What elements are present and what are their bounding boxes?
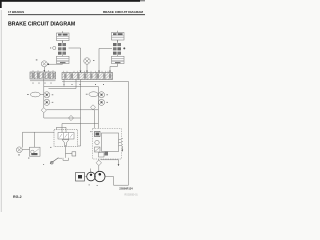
top scan border [0,0,140,2]
wire: band right end to right riser [113,81,129,83]
left accumulator oval [30,92,40,97]
wire: supply line to foot valve and pump unit [62,123,98,125]
wire: tick above pump circle1 [90,169,92,173]
tank symbol under foot valve [63,158,69,161]
right gauge A [98,92,104,98]
label dash above left gauge [36,59,38,60]
valve circle in block [95,140,99,144]
label dash right of charge gauge [93,59,94,62]
wire: right block drain [101,160,119,166]
motor box [76,173,87,182]
left brake band (slack adjuster row) [30,72,56,81]
label dot left of foot valve [50,146,51,149]
main brake band (brake line manifold) [62,73,113,82]
label dots under main band [64,83,105,86]
arrowheads into manifold [43,70,123,166]
right gauge B [98,99,104,105]
label dots under left band [33,82,52,85]
wire: left diamond down [43,113,45,118]
wire: pump diamond to pump [98,166,100,172]
wire: L1 drop to foot valve port [78,80,81,147]
brake pedal [50,158,62,164]
wire: line L2 with check valves [46,109,98,111]
wire: right riser [128,82,130,186]
right ticks of block [119,139,124,147]
svg-text:22B06R134: 22B06R134 [119,187,133,190]
wire: bottom return line [105,177,128,186]
svg-text:BRAKE CIRCUIT DIAGRAM: BRAKE CIRCUIT DIAGRAM [8,22,75,28]
valve R end cap [117,40,119,43]
pump circle 1 [87,172,96,181]
pump circle 2 [95,171,105,181]
wire: L stack connector [62,41,64,43]
solenoid valve R [113,43,121,55]
link oval to gauges [40,94,44,96]
svg-text:17 BRAKES: 17 BRAKES [8,10,24,14]
left gauge A [44,92,50,98]
dash right of gauge B [52,101,54,104]
check diamond D2 on L1 [68,115,73,120]
wire: foot valve port 1 drop [61,124,63,133]
wire: band port stub x64 [63,80,65,87]
wire: line1 down into right block [97,87,99,129]
label dot left of port L [50,47,51,50]
reservoir L bottom box [57,55,70,64]
accumulator R top (tank box) [112,31,125,40]
dash right of gauge A [52,93,54,96]
accumulator L top (tank box) [57,31,70,40]
label dot left of pedal [43,163,44,166]
dash right of right gauge A [106,93,108,96]
wire: left stack bottom box to gauge line [48,63,62,66]
dash left of right oval [86,93,88,96]
bottom symbols in block [99,153,105,158]
wire: charge pump to foot valve supply [23,131,55,133]
header rule [8,14,145,16]
reservoir R bottom box [112,55,125,64]
wire: brake line 1 under bands [44,86,99,88]
wire: left gauge circle to left band [43,67,45,72]
drain symbol right of outlet [72,152,76,156]
left pressure gauge (upper) [41,61,47,67]
dash right of right gauge B [106,101,108,104]
wire: foot valve outlet down [65,146,67,158]
valve L end cap [62,41,64,44]
right accumulator oval [89,92,98,97]
wire: R stack connector [117,40,119,42]
ticks above main band [64,71,109,73]
wire: right valve to band (arrow down at x99) [99,49,112,73]
left scan border [0,0,2,8]
wire: brake line 2 under band [49,80,77,89]
port circle R [123,47,125,49]
left check diamond [41,108,46,113]
wire: L2 down into right block [94,110,96,129]
solenoid valve L [58,43,66,55]
wire: left valve to band [69,48,81,73]
svg-text:RG-2: RG-2 [13,195,22,199]
solenoid in block [95,132,101,137]
wire: foot valve drain branch [66,153,73,155]
port circle L [53,46,56,49]
svg-text:BRAKE CIRCUIT DIAGRAM: BRAKE CIRCUIT DIAGRAM [103,10,143,14]
ticks above left band [33,70,53,72]
label dash under pump unit [28,157,29,160]
svg-text:RG02060-01: RG02060-01 [125,194,139,196]
wire: charge gauge to band [86,64,88,72]
foot brake valve (bottom left) [54,130,78,147]
wire: band port to gauge A left [43,79,45,108]
wire: drop to pump circle [22,132,24,147]
charge gauge circle (top middle) [84,58,90,64]
dash left of left oval [27,93,29,96]
lower valve box in block [95,147,101,152]
wire: right stack bottom box to band [110,64,118,73]
left gauge B [44,99,50,105]
check diamond under relay block [96,160,101,166]
charge pump unit (left bottom) [16,147,40,156]
wire: right block bottom to pump diamond [98,159,100,160]
right check diamond on L2 [91,105,96,110]
wire: line L1 to foot valve [44,117,81,119]
wire: drop to pump box [34,132,36,147]
label dash under pumps [89,184,90,187]
page background [0,0,150,212]
relay valve block (bottom right, dashed) [90,129,123,160]
